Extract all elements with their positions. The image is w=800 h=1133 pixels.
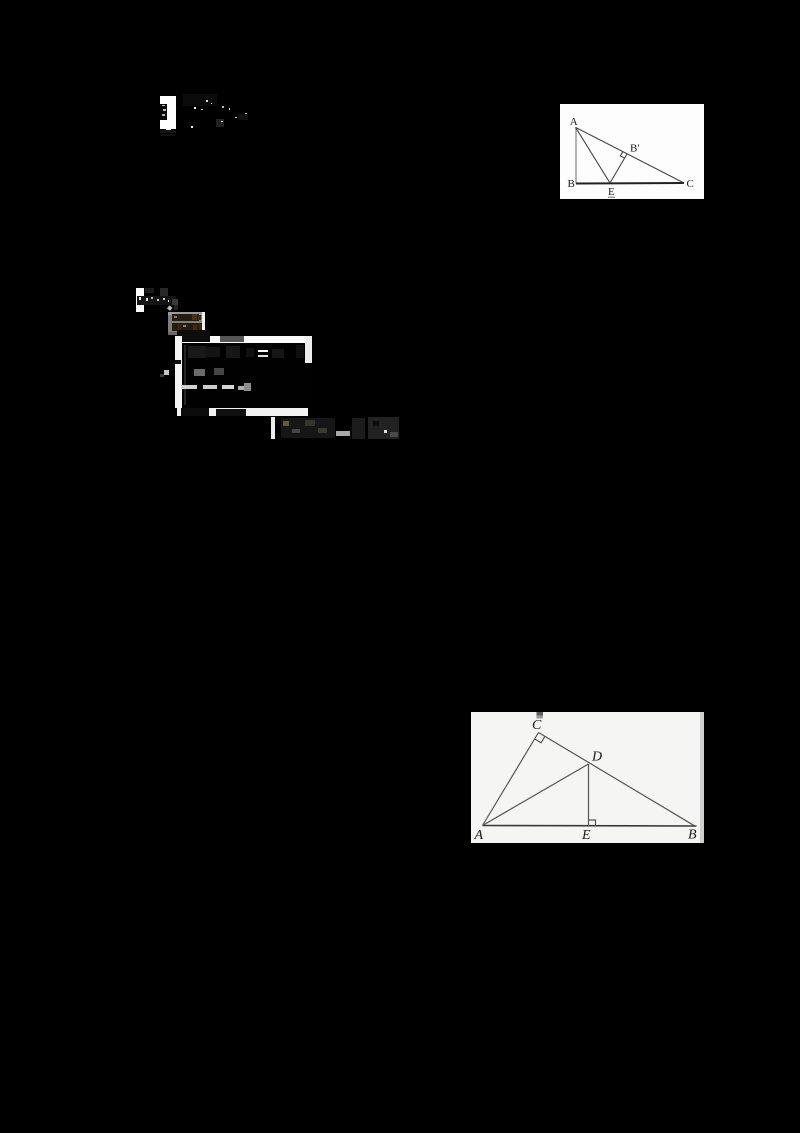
- wire AE: [576, 127, 610, 183]
- white tick above highlight block: [167, 305, 172, 310]
- svg-text:D: D: [591, 749, 602, 764]
- svg-text:C: C: [532, 718, 542, 733]
- svg-text:E: E: [608, 186, 615, 198]
- white tail below correction box: [166, 128, 171, 132]
- svg-text:C: C: [687, 178, 694, 190]
- top white band: [175, 336, 312, 343]
- faint gray scribble rows under box: [160, 130, 176, 133]
- white '=' fragment: [258, 350, 268, 352]
- white tick left of equation block: [164, 370, 169, 375]
- svg-text:B′: B′: [630, 143, 640, 155]
- faint equation glyph fragments row 1: [188, 346, 206, 358]
- white glyph specks inside dark patch: [162, 105, 165, 106]
- diagram 1: triangle ABC with E on BC and B' on AC: [560, 104, 704, 199]
- svg-text:A: A: [474, 828, 484, 843]
- wire BC: [576, 182, 684, 185]
- wire AB: [483, 824, 697, 827]
- right angle mark at B': [620, 152, 624, 158]
- wire CB: [539, 732, 695, 825]
- right angle mark at E: [589, 820, 596, 826]
- diagram 2: triangle ABC with D on CB and E on AB: [471, 712, 704, 843]
- wire AB: [575, 127, 577, 183]
- bottom white band: [177, 408, 308, 416]
- wire AC: [576, 127, 684, 182]
- white correction bar at 解: [136, 288, 144, 313]
- faint text "解:设" line: [137, 296, 176, 306]
- faint brace strip: [184, 345, 186, 405]
- faint handwriting area right of box: [183, 94, 217, 106]
- wire EB': [610, 154, 627, 183]
- dark notch across left column: [175, 360, 181, 364]
- svg-text:B: B: [568, 178, 575, 190]
- svg-text:B: B: [688, 827, 697, 842]
- svg-text:E: E: [581, 828, 591, 843]
- bottom equation row: [271, 417, 275, 439]
- dark patch inside correction box: [160, 104, 167, 120]
- svg-text:A: A: [570, 116, 578, 128]
- white correction box top-left: [160, 96, 176, 129]
- white stripe right of highlight block: [202, 312, 205, 331]
- wire AD: [483, 764, 589, 826]
- dark scribbles on top band: [177, 330, 210, 342]
- underline artifact below E: [608, 197, 615, 199]
- big equation block (white frame, dark interior): [175, 335, 312, 416]
- dark marks on bottom band: [181, 408, 209, 416]
- right white column (top part): [305, 336, 312, 363]
- right angle mark at C: [535, 736, 545, 743]
- gray tab at top edge: [537, 712, 544, 716]
- highlighted system-of-equations block: [168, 312, 205, 335]
- wire DE: [588, 764, 590, 826]
- wire AC: [483, 732, 539, 825]
- diagram 2 white background: [471, 712, 704, 843]
- faint gray blocks above 解 text: [160, 288, 168, 297]
- diagram 1 white background: [560, 104, 704, 199]
- left white column: [175, 336, 182, 408]
- gray right edge column: [700, 712, 704, 843]
- white fraction dashes row: [181, 385, 197, 389]
- gray patch mid: [194, 369, 205, 376]
